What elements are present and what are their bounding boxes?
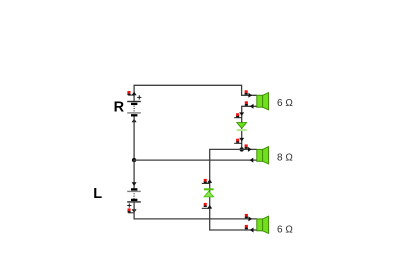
polarity arrow (left) on SP3 bottom wire (250, 228, 254, 233)
pin marker on SP3 bottom wire (245, 225, 248, 229)
wire: node N1 down to source L top (133, 160, 135, 189)
wire: top horizontal from source R to speaker SP1 top (134, 85, 257, 101)
pin marker on source L positive terminal (128, 208, 135, 212)
wire: SP2 top horizontal with left corner down to diode D2 branch (210, 149, 257, 163)
node N1 junction dot (132, 158, 136, 162)
pin marker at diode D2 cathode (top) (202, 179, 210, 184)
node N2 junction dot (D1 cathode joins SP2 top wire) (240, 147, 244, 151)
speaker SP1 (6 ohm) (257, 93, 269, 110)
polarity arrow (up) at source R top (132, 92, 137, 96)
wire: source L bottom to speaker SP3 top (134, 202, 257, 219)
pin marker at diode D2 anode (bottom) (202, 203, 210, 208)
polarity arrow (left) on SP1 bottom wire (250, 104, 254, 109)
speaker SP2 (8 ohm) (257, 147, 269, 164)
diode D1 (pointing down) (237, 123, 247, 130)
svg-text:8 Ω: 8 Ω (277, 152, 293, 163)
pin marker at diode D1 anode (234, 113, 242, 118)
polarity arrow (up) at diode D2 anode (207, 205, 212, 209)
voltage source L (battery symbol, inverted) (127, 189, 141, 207)
pin marker on SP1 top wire (245, 90, 248, 94)
pin marker on source R positive terminal (127, 91, 134, 95)
svg-text:6 Ω: 6 Ω (277, 98, 293, 109)
diode D2 (pointing up) (204, 189, 214, 197)
pin marker on SP1 bottom wire (245, 101, 248, 105)
speaker SP3 (6 ohm) (257, 216, 269, 233)
polarity arrow (down) at diode D1 anode (239, 112, 244, 116)
polarity arrow (left) on SP2 bottom wire (250, 158, 254, 163)
wire: source R bottom down to node N1 (133, 116, 135, 160)
svg-text:6 Ω: 6 Ω (277, 224, 293, 235)
polarity arrow (right) on SP3 top wire (248, 216, 252, 221)
pin marker on SP2 top wire (245, 144, 248, 148)
voltage source R (battery symbol) (127, 95, 141, 115)
polarity arrow (down) at diode D1 cathode (239, 138, 244, 142)
svg-text:L: L (93, 186, 102, 202)
wire: vertical diode D2 branch down to speaker SP3 bottom (210, 163, 257, 230)
polarity arrow (right) on SP1 top wire (248, 93, 252, 98)
pin marker on SP3 top wire (245, 214, 248, 218)
wire: speaker SP1 bottom left and down into diode D1 branch (242, 106, 257, 149)
polarity arrow (up) at diode D2 cathode (207, 179, 212, 183)
polarity arrow (right) on SP2 top wire (248, 147, 252, 152)
polarity arrow (down) at source L bottom (132, 209, 137, 213)
wire: node N1 right to speaker SP2 bottom (134, 159, 257, 161)
pin marker at diode D1 cathode (234, 139, 242, 144)
polarity arrow (down) at source L top (132, 182, 137, 186)
polarity arrow (up) at source R bottom (132, 119, 137, 123)
svg-text:R: R (114, 100, 125, 116)
